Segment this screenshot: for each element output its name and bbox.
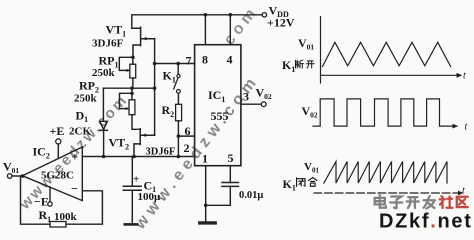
wire pin 6 <box>178 135 194 137</box>
capacitor C1 <box>123 157 141 225</box>
svg-text:4: 4 <box>227 52 233 66</box>
svg-text:555: 555 <box>211 109 229 123</box>
wire pin 1 <box>205 166 207 221</box>
node RP1 bottom <box>130 86 134 90</box>
svg-text:250k: 250k <box>74 93 98 105</box>
svg-text:0.01μ: 0.01μ <box>239 190 263 201</box>
power terminal -E <box>48 187 52 206</box>
op-amp U2 triangle <box>23 147 83 201</box>
potentiometer RP1 <box>119 57 135 88</box>
svg-text:+: + <box>72 150 79 164</box>
resistor R1 <box>50 222 66 228</box>
svg-text:−: − <box>71 182 78 196</box>
svg-text:5: 5 <box>228 151 234 165</box>
wire pin 8 <box>204 15 206 45</box>
node VT2 source / C1 top <box>132 155 136 159</box>
wire feedback bottom left <box>21 176 51 224</box>
terminal V02 <box>261 102 266 107</box>
watermark diagonal pink line B <box>131 72 263 234</box>
waveform V02: t axis arrow <box>453 124 459 129</box>
wire pin 7 <box>155 63 195 65</box>
node pin1 / bypass cap <box>204 204 208 208</box>
svg-text:2: 2 <box>184 141 190 155</box>
node rail pin4 <box>229 13 233 17</box>
node rail pin8 <box>204 13 208 17</box>
node RP2 wiper tie <box>130 92 134 96</box>
svg-text:DZkf.net: DZkf.net <box>379 211 473 233</box>
waveform sawtooth: dashed t axis <box>314 191 464 196</box>
wire pin 2 / main node <box>82 156 194 158</box>
node pin2 junction <box>177 155 181 159</box>
svg-text:3: 3 <box>243 89 249 103</box>
waveform V01 triangle wave <box>323 42 451 66</box>
wire feedback bottom right <box>66 223 102 225</box>
resistor R2 <box>176 104 182 136</box>
svg-text:+: + <box>133 174 139 186</box>
svg-text:+12V: +12V <box>267 16 295 30</box>
svg-text:100k: 100k <box>54 211 78 223</box>
label VDD <box>267 4 295 30</box>
node gate column junction <box>153 86 157 90</box>
power terminal VDD <box>262 13 266 17</box>
svg-text:100μ: 100μ <box>138 191 162 203</box>
node pin7 / gate column <box>153 62 157 66</box>
svg-text:+E: +E <box>50 124 65 138</box>
svg-text:t: t <box>465 122 468 133</box>
wire gate-node horizontal (RP1 bottom / D1 anode / RP2 top) <box>103 87 154 89</box>
watermark site name CJK <box>375 195 468 209</box>
waveform V01 sawtooth wave <box>324 162 447 184</box>
node D1 cathode <box>102 155 106 159</box>
watermark diagonal pink tail C <box>221 3 262 49</box>
svg-text:250k: 250k <box>92 67 116 79</box>
waveform V02 square wave <box>313 99 454 126</box>
label waveform3 K1 bihe <box>283 177 317 193</box>
svg-text:3DJ6F: 3DJ6F <box>146 146 176 157</box>
capacitor C2 0.01u <box>222 166 239 206</box>
svg-text:2CK: 2CK <box>69 126 91 138</box>
wire pin 4 <box>229 15 231 45</box>
terminal V01 <box>7 174 12 179</box>
diode D1 <box>100 88 108 156</box>
wire inverting input <box>82 191 102 223</box>
node K1 top <box>176 62 180 66</box>
svg-text:t: t <box>463 71 466 82</box>
svg-text:7: 7 <box>186 53 192 67</box>
wire VDD rail <box>132 15 262 28</box>
label waveform1 K1 duankai <box>282 58 314 74</box>
wire bypass cap bottom <box>206 204 231 206</box>
svg-text:1: 1 <box>202 152 208 166</box>
svg-text:−E: −E <box>34 194 49 208</box>
ground <box>200 221 215 224</box>
node pin6 junction <box>177 134 181 138</box>
IC U1 555 box <box>195 45 241 166</box>
wire V01 output <box>12 175 23 177</box>
waveform V01 triangle: t axis <box>321 73 463 78</box>
node RP1 top junction <box>131 56 135 60</box>
node V01 <box>21 174 25 178</box>
svg-text:3DJ6F: 3DJ6F <box>92 38 123 50</box>
power terminal +E <box>56 139 61 159</box>
wire pin 3 output <box>241 103 261 105</box>
waveform V01 triangle: y axis <box>320 17 322 84</box>
switch K1 <box>174 64 181 105</box>
svg-text:t: t <box>462 186 465 197</box>
watermark diagonal pink line A <box>16 91 132 213</box>
potentiometer RP2 <box>120 88 140 129</box>
svg-text:6: 6 <box>185 124 191 138</box>
wire VT1 gate to VT2 gate vertical <box>154 39 156 136</box>
svg-text:8: 8 <box>202 52 208 66</box>
svg-text:5G28C: 5G28C <box>41 170 74 182</box>
wire pin6 to pin2 vertical <box>177 136 179 156</box>
transistor VT2 <box>134 129 155 157</box>
transistor VT1 <box>132 27 155 55</box>
